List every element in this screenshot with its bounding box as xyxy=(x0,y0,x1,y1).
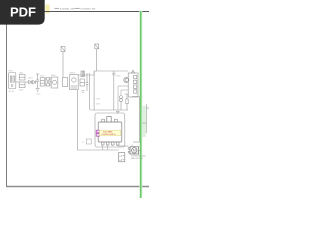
svg-text:K601: K601 xyxy=(51,75,55,77)
IC601 highlight band (yellow) xyxy=(99,130,120,136)
wire module pin drop 3 xyxy=(112,145,114,146)
IC601 body xyxy=(98,117,122,142)
wire right rail stub mid xyxy=(142,122,146,124)
motor pin left 2 xyxy=(128,151,130,153)
wire motor feed y146 xyxy=(118,145,129,147)
green net branch fill xyxy=(141,106,145,137)
svg-text:MAIN MOTOR: MAIN MOTOR xyxy=(131,157,144,160)
wire return rail top stub xyxy=(132,96,140,98)
wire module pin drop 1 xyxy=(102,145,104,150)
wire flag drop 2 xyxy=(96,49,98,71)
legend dash 1 xyxy=(55,7,60,9)
IC601 highlighted pin 2 (magenta) xyxy=(96,134,99,137)
transformer T601 xyxy=(19,74,25,87)
legend dash 2 xyxy=(75,7,80,9)
motor pin left 1 xyxy=(128,147,130,149)
ground above IC601 xyxy=(116,111,120,113)
svg-text:C605: C605 xyxy=(116,75,121,77)
diode D601 xyxy=(29,80,32,83)
page bottom border xyxy=(6,186,149,188)
CN602 row 1 tick xyxy=(123,155,125,157)
svg-text:C601: C601 xyxy=(36,94,40,96)
highlighted green net (halo) xyxy=(139,11,142,198)
IC U602 (vertical regulator) xyxy=(128,70,138,97)
wire bus y75 xyxy=(78,74,94,76)
part label box U603 xyxy=(86,139,91,144)
wire mid bus y110 xyxy=(90,109,128,111)
page top border xyxy=(44,11,149,13)
wire right rail stub top xyxy=(146,107,149,109)
connector P601 (AC inlet) xyxy=(9,73,16,89)
PDF badge xyxy=(0,0,45,25)
connector CN601 xyxy=(81,71,85,77)
svg-text:AC IN: AC IN xyxy=(9,90,15,93)
svg-text:DB601: DB601 xyxy=(69,72,75,74)
wire flag drop xyxy=(62,52,64,78)
capacitor C603 xyxy=(86,73,89,91)
wire pin link a xyxy=(118,85,125,87)
svg-text:R601: R601 xyxy=(40,76,44,78)
diode D602 xyxy=(33,80,36,83)
svg-text:D601: D601 xyxy=(28,78,33,80)
varistor Z601 xyxy=(46,78,50,86)
transistor Q601 xyxy=(124,77,129,82)
bridge rectifier DB601 xyxy=(70,75,79,90)
capacitor C602 xyxy=(80,79,85,86)
svg-text:120V: 120V xyxy=(19,90,24,92)
wire motor to green net xyxy=(139,149,141,151)
page background xyxy=(0,0,149,198)
wire pin link b xyxy=(121,89,125,91)
capacitor C605 xyxy=(112,71,115,110)
wire return rail xyxy=(139,97,141,143)
motor M601 xyxy=(130,147,139,154)
wire drop from bridge xyxy=(76,90,78,150)
svg-text:A SIGNAL LINE: A SIGNAL LINE xyxy=(60,7,75,10)
module outline box xyxy=(95,113,125,147)
pin stubs of U602 xyxy=(125,78,129,94)
svg-text:PDF: PDF xyxy=(10,4,36,19)
svg-text:T601: T601 xyxy=(19,72,23,74)
node flag F601 xyxy=(61,47,65,52)
relay K601 xyxy=(51,77,58,88)
svg-text:M: M xyxy=(133,149,136,153)
resistor R602 xyxy=(63,78,68,87)
resistor R601 xyxy=(40,78,44,86)
CN602 row 2 tick xyxy=(123,159,125,161)
svg-text:B SIGNAL LINE: B SIGNAL LINE xyxy=(81,7,96,10)
resistor R605 xyxy=(126,94,128,110)
IC601 bottom pins xyxy=(101,142,119,145)
node flag F602 xyxy=(95,44,99,49)
IC601 highlighted pin 1 (magenta) xyxy=(96,130,99,133)
svg-text:1 2: 1 2 xyxy=(131,145,134,147)
wire transformer to diodes xyxy=(25,81,28,83)
wire module pin drop 2 xyxy=(107,145,109,150)
capacitor C601 xyxy=(36,74,39,88)
wire node drop xyxy=(93,71,95,110)
wire to relay xyxy=(50,81,52,83)
wire plug to transformer xyxy=(16,81,19,83)
svg-text:CONTROLLER 5V: CONTROLLER 5V xyxy=(102,134,117,136)
wire pin drop b xyxy=(120,90,122,95)
photocoupler D605 xyxy=(120,96,123,111)
highlight legend swatch (yellow) xyxy=(45,5,49,14)
ground under C602 xyxy=(81,91,84,93)
highlighted green net xyxy=(140,11,142,198)
wire bus y71 xyxy=(94,70,128,72)
connector CN602 xyxy=(119,153,125,162)
wire right rail xyxy=(145,104,147,133)
wire drop x89.7 xyxy=(89,73,91,110)
svg-text:P601: P601 xyxy=(8,70,12,72)
wire return rail bottom stub xyxy=(133,141,140,143)
wire module pin drop 4 xyxy=(117,145,119,146)
page left border xyxy=(6,24,8,187)
IC601 top pins xyxy=(102,119,117,122)
wire lower bus y150 xyxy=(77,149,118,151)
wire pin drop a xyxy=(117,86,119,110)
ground xyxy=(36,88,40,91)
wire bus step xyxy=(93,71,95,75)
